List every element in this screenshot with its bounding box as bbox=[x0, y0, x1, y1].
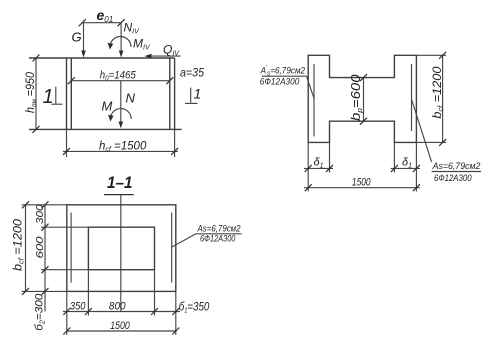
svg-text:G: G bbox=[72, 30, 82, 45]
svg-text:a=35: a=35 bbox=[180, 66, 204, 80]
svg-text:6Ф12А300: 6Ф12А300 bbox=[260, 77, 300, 87]
svg-text:1–1: 1–1 bbox=[107, 173, 133, 192]
svg-text:600: 600 bbox=[34, 236, 46, 258]
svg-text:800: 800 bbox=[109, 301, 126, 313]
svg-text:M: M bbox=[102, 99, 113, 114]
svg-text:350: 350 bbox=[70, 301, 86, 313]
svg-text:1500: 1500 bbox=[110, 320, 130, 332]
svg-text:6Ф12А300: 6Ф12А300 bbox=[434, 173, 472, 184]
svg-text:1: 1 bbox=[43, 86, 54, 108]
svg-text:300: 300 bbox=[34, 204, 46, 224]
svg-text:bp=600: bp=600 bbox=[349, 74, 364, 121]
svg-text:N: N bbox=[126, 91, 136, 106]
svg-text:Аs=6,79см2: Аs=6,79см2 bbox=[432, 161, 481, 172]
svg-text:б1=350: б1=350 bbox=[179, 300, 210, 315]
svg-text:1500: 1500 bbox=[352, 177, 371, 189]
svg-text:б2=300: б2=300 bbox=[34, 293, 47, 331]
svg-text:6Ф12А300: 6Ф12А300 bbox=[200, 234, 236, 245]
svg-text:1: 1 bbox=[194, 86, 202, 102]
